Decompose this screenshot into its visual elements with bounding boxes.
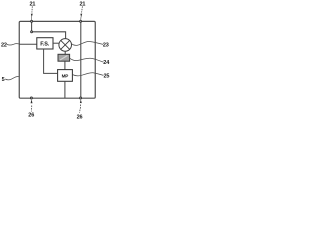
svg-text:26: 26 [77, 114, 83, 120]
svg-text:25: 25 [103, 74, 109, 80]
svg-text:21: 21 [29, 2, 35, 8]
svg-text:26: 26 [28, 113, 34, 119]
svg-text:5: 5 [2, 77, 5, 83]
svg-text:21: 21 [79, 2, 85, 8]
svg-text:F.S.: F.S. [40, 41, 49, 47]
svg-text:24: 24 [103, 60, 110, 66]
svg-text:23: 23 [103, 42, 109, 48]
svg-text:MP: MP [62, 74, 69, 79]
svg-text:22: 22 [1, 42, 7, 48]
